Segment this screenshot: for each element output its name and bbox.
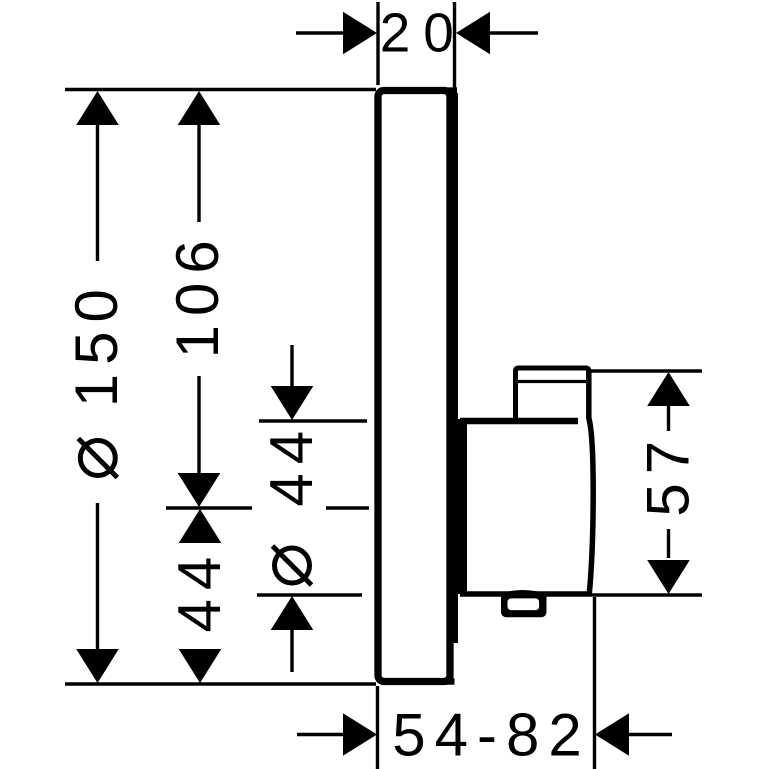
extension line 54-82 left <box>376 686 379 769</box>
dim d44 arrow top <box>271 386 314 420</box>
body bottom bump <box>496 590 550 595</box>
diameter symbol 150 <box>80 441 115 476</box>
svg-text:54-82: 54-82 <box>392 702 590 769</box>
dim 57 arrow top <box>647 372 690 406</box>
bottom tab <box>501 592 547 617</box>
dim 54-82 arrow left <box>343 713 377 756</box>
stem outline <box>516 368 589 421</box>
extension tick 106 left segment <box>166 506 252 509</box>
extension line top <box>65 88 376 91</box>
dim 20 tail right <box>490 31 538 34</box>
extension line bottom <box>65 682 376 685</box>
dim 106 line lower <box>197 376 200 476</box>
dim 44 arrow bottom <box>179 649 222 683</box>
extension tick body bottom <box>257 593 362 596</box>
dim d44 arrow bottom <box>271 596 314 630</box>
body outline <box>458 419 467 594</box>
plate outline <box>378 91 450 682</box>
svg-text:57: 57 <box>635 432 702 517</box>
plate bottom edge cap <box>446 678 455 685</box>
dim 106 line upper <box>197 123 200 222</box>
dim 106 arrow top <box>178 91 221 125</box>
dim 20 arrow left <box>343 12 377 55</box>
extension line 54-82 right <box>593 597 596 769</box>
dim 54-82 tail right <box>629 733 672 736</box>
extension line 57 bottom <box>590 593 702 596</box>
body bottom edge <box>460 591 590 597</box>
dim 20 arrow right <box>456 12 490 55</box>
body right edge bulge <box>589 370 593 594</box>
dim 20 tail left <box>296 31 345 34</box>
stem inner line <box>517 380 586 383</box>
dim 54-82 arrow right <box>595 713 629 756</box>
svg-text:44: 44 <box>166 548 233 633</box>
svg-text:106: 106 <box>164 231 231 358</box>
dim 44 arrow top <box>179 509 222 543</box>
extension tick 106 right segment <box>326 506 369 509</box>
bottom tab inner white <box>508 598 540 610</box>
dim 150 arrow bottom <box>76 649 119 683</box>
dim 57 line upper <box>667 404 670 431</box>
dim 106 arrow bottom <box>178 473 221 507</box>
dim 54-82 tail left <box>297 733 345 736</box>
extension tick body top <box>259 419 367 422</box>
body top edge <box>460 418 578 425</box>
dim 150 line upper <box>96 123 99 261</box>
svg-text:150: 150 <box>63 280 130 407</box>
extension line 57 top <box>587 369 702 372</box>
plate top edge cap <box>446 87 457 94</box>
dim 57 line lower <box>667 529 670 558</box>
plate edge profile bar <box>452 93 458 643</box>
extension line 20 left <box>376 2 379 85</box>
dim d44 line lower <box>290 628 293 672</box>
dim 150 line lower <box>96 503 99 651</box>
extension line 20 right <box>453 2 456 90</box>
dim 150 arrow top <box>76 91 119 125</box>
svg-text:44: 44 <box>258 422 325 507</box>
diameter symbol 44 <box>275 548 310 583</box>
dim d44 line upper <box>290 345 293 388</box>
svg-text:20: 20 <box>380 2 467 64</box>
dim 57 arrow bottom <box>647 560 690 594</box>
